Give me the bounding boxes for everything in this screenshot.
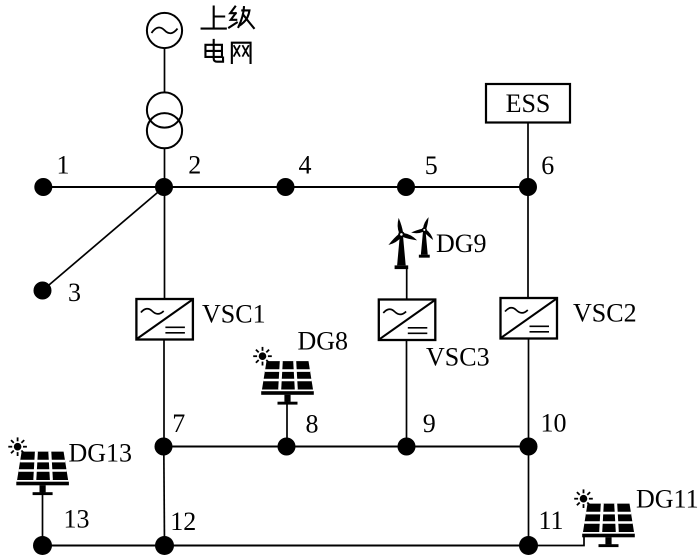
wire transformer to node 2 [164,148,166,187]
wire source to transformer [164,48,166,93]
wire VSC2 to node10 [528,339,530,447]
svg-text:1: 1 [57,151,70,180]
converter VSC2 [501,298,558,339]
generator DG11 pv [574,489,635,547]
generator DG9 wind turbine right [411,216,435,257]
wire bus 1-2 [43,186,164,188]
char ji [229,7,254,28]
svg-text:DG13: DG13 [69,439,133,468]
wire bus 13-12 [43,544,165,546]
svg-text:DG8: DG8 [298,327,349,356]
svg-text:5: 5 [425,151,438,180]
wire bus 4-5 [286,186,407,188]
node 10 [520,438,538,456]
node 12 [155,536,174,555]
node 9 [398,438,416,456]
transformer T1 [147,92,182,148]
svg-text:10: 10 [541,409,567,438]
wire node7 to node12 [163,447,166,546]
svg-text:4: 4 [299,151,312,180]
wire bus 9-10 [407,445,529,447]
svg-text:2: 2 [188,151,201,180]
wire bus 8-9 [287,445,407,447]
source upper grid [147,13,182,48]
node 7 [155,438,173,456]
node 11 [519,536,538,555]
svg-text:11: 11 [538,506,563,535]
node 4 [277,178,295,196]
char dian [205,40,223,62]
wire DG13 pole to node13 [42,490,44,546]
wire bus 12-11 [165,544,529,546]
svg-text:VSC1: VSC1 [202,300,266,329]
node 13 [33,536,52,555]
label upper grid (上级电网) [202,7,254,63]
svg-text:8: 8 [306,410,319,439]
wire bus 5-6 [406,186,528,188]
generator DG9 wind turbine left [387,218,418,270]
wire node10 to node11 [528,447,530,546]
node 5 [397,178,415,196]
node 2 [155,178,173,196]
generator DG8 pv [253,347,314,405]
wire ESS to node 6 [527,123,529,188]
wire VSC1 to node7 [163,340,165,447]
wire node2 to VSC1 [164,187,166,299]
char shang [202,7,226,29]
svg-text:3: 3 [68,278,81,307]
converter VSC3 [379,300,436,341]
svg-text:9: 9 [423,409,436,438]
node 6 [519,178,537,196]
wire node11 to DG11 [529,534,585,546]
wire VSC3 to node9 [406,341,408,447]
wire bus 7-8 [164,445,287,447]
node 1 [34,178,52,196]
node 3 [34,282,52,300]
svg-text:7: 7 [172,409,185,438]
battery ESS [486,84,570,123]
wire 2-3 [43,187,165,291]
svg-text:DG11: DG11 [636,485,699,514]
wire node6 to VSC2 [527,187,529,298]
svg-text:VSC2: VSC2 [573,299,637,328]
wire DG8 pole to node8 [286,400,288,447]
wire bus 2-4 [164,186,286,188]
wire DG9 to VSC3 [406,267,408,299]
svg-text:VSC3: VSC3 [426,343,490,372]
svg-text:6: 6 [541,151,554,180]
svg-text:DG9: DG9 [436,229,487,258]
svg-text:13: 13 [64,505,90,534]
node 8 [278,438,296,456]
svg-text:ESS: ESS [506,89,551,118]
converter VSC1 [136,299,193,340]
generator DG13 pv [8,437,69,495]
svg-text:12: 12 [170,507,196,536]
char wang [232,43,251,63]
